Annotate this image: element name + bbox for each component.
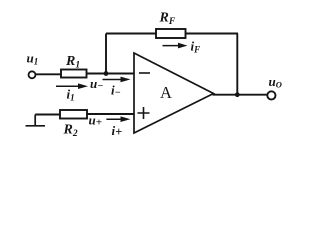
wire u1 terminal to R1 — [36, 73, 61, 75]
svg-text:RF: RF — [159, 11, 176, 28]
wire R2 to non-inverting input — [87, 113, 134, 115]
current arrow i-plus — [106, 116, 130, 122]
resistor RF — [156, 29, 186, 38]
resistor R1 — [61, 70, 87, 78]
resistor R2 — [60, 110, 87, 119]
current arrow i-minus — [103, 77, 131, 83]
svg-text:u−: u− — [90, 76, 103, 92]
svg-text:A: A — [160, 83, 172, 102]
output terminal uO — [267, 91, 275, 99]
wire tap to RF — [106, 33, 156, 35]
wire R1 to inverting input — [87, 73, 135, 75]
wire output to terminal — [213, 94, 268, 96]
svg-text:uO: uO — [269, 74, 282, 90]
svg-text:R1: R1 — [65, 54, 80, 71]
svg-text:i+: i+ — [112, 123, 123, 139]
svg-text:i−: i− — [111, 83, 121, 99]
svg-text:iF: iF — [191, 39, 201, 55]
wire feedback tap up — [105, 34, 107, 74]
op-amp A triangle — [134, 53, 214, 133]
input terminal u1 — [29, 71, 36, 78]
ground — [26, 115, 46, 126]
wire ground to R2 — [35, 114, 60, 116]
wire RF to right drop — [186, 33, 239, 35]
wire feedback drop to output — [236, 34, 238, 95]
op-amp inverting pin minus sign — [139, 72, 150, 74]
svg-text:u1: u1 — [27, 51, 39, 67]
current arrow iF — [163, 43, 188, 49]
node junction at inverting input — [104, 71, 109, 76]
svg-text:i1: i1 — [67, 87, 75, 103]
current arrow i1 — [56, 83, 88, 89]
node junction at output — [235, 92, 240, 97]
svg-text:R2: R2 — [63, 123, 78, 140]
op-amp non-inverting pin plus sign — [138, 107, 150, 119]
